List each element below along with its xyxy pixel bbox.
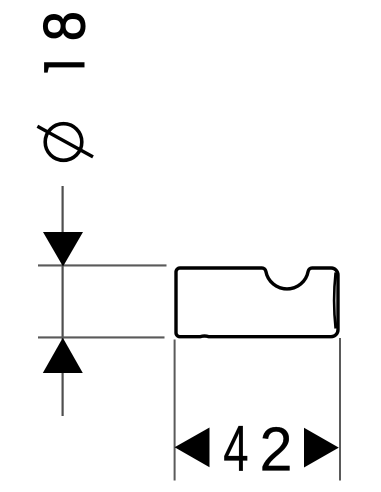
svg-text:4: 4 [223, 411, 248, 484]
svg-text:8: 8 [32, 11, 98, 41]
svg-text:2: 2 [259, 414, 292, 484]
